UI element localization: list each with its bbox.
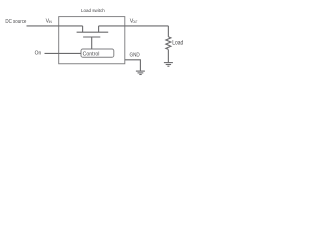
svg-text:IN: IN bbox=[49, 20, 53, 24]
svg-text:Control: Control bbox=[83, 52, 100, 58]
svg-text:Load: Load bbox=[172, 41, 183, 47]
svg-text:OUT: OUT bbox=[133, 20, 138, 24]
svg-text:GND: GND bbox=[130, 53, 140, 59]
svg-text:DC source: DC source bbox=[5, 19, 26, 25]
svg-text:Load switch: Load switch bbox=[81, 8, 105, 14]
svg-text:On: On bbox=[35, 50, 42, 56]
